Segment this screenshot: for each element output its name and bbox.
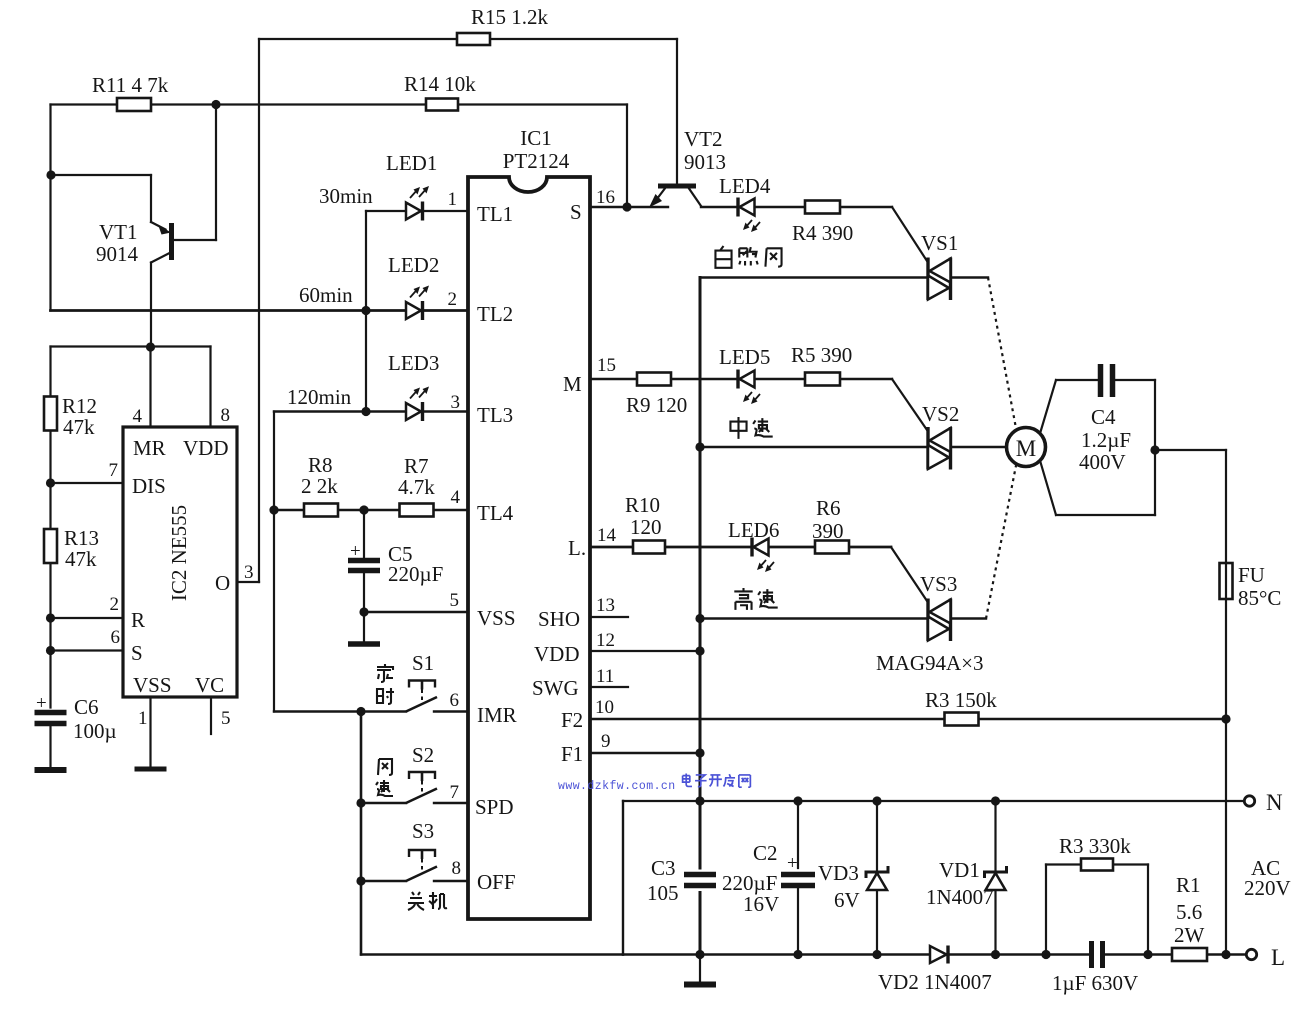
- svg-text:6: 6: [450, 690, 460, 711]
- svg-text:6V: 6V: [834, 888, 860, 912]
- svg-text:MR: MR: [133, 436, 166, 460]
- svg-text:16: 16: [596, 187, 615, 208]
- svg-text:VDD: VDD: [534, 642, 580, 666]
- svg-text:TL2: TL2: [477, 302, 513, 326]
- svg-text:7: 7: [450, 782, 460, 803]
- svg-text:4: 4: [451, 487, 461, 508]
- svg-text:VSS: VSS: [133, 673, 172, 697]
- svg-text:47k: 47k: [63, 415, 95, 439]
- svg-text:VC: VC: [195, 673, 224, 697]
- svg-text:VD1: VD1: [939, 858, 980, 882]
- svg-text:1µF 630V: 1µF 630V: [1052, 971, 1138, 995]
- svg-text:LED6: LED6: [728, 518, 779, 542]
- svg-text:4.7k: 4.7k: [398, 475, 435, 499]
- svg-text:L: L: [1271, 945, 1285, 970]
- svg-text:F1: F1: [561, 742, 583, 766]
- svg-text:5: 5: [221, 708, 231, 729]
- svg-text:R5 390: R5 390: [791, 343, 852, 367]
- svg-text:5: 5: [450, 590, 460, 611]
- svg-text:16V: 16V: [743, 892, 779, 916]
- svg-text:VT1: VT1: [99, 220, 138, 244]
- svg-text:12: 12: [596, 630, 615, 651]
- svg-text:S: S: [570, 200, 582, 224]
- svg-text:2W: 2W: [1174, 923, 1205, 947]
- svg-text:2 2k: 2 2k: [301, 474, 338, 498]
- svg-text:C2: C2: [753, 841, 778, 865]
- svg-text:R9 120: R9 120: [626, 393, 687, 417]
- svg-text:SHO: SHO: [538, 607, 580, 631]
- svg-text:SWG: SWG: [532, 676, 579, 700]
- svg-text:R: R: [131, 608, 145, 632]
- svg-text:PT2124: PT2124: [503, 149, 570, 173]
- svg-text:105: 105: [647, 881, 679, 905]
- svg-text:M: M: [563, 372, 582, 396]
- svg-text:VD3: VD3: [818, 861, 859, 885]
- svg-text:LED2: LED2: [388, 253, 439, 277]
- svg-text:30min: 30min: [319, 184, 373, 208]
- svg-text:TL3: TL3: [477, 403, 513, 427]
- svg-text:VD2 1N4007: VD2 1N4007: [878, 970, 992, 994]
- svg-text:220µF: 220µF: [388, 562, 443, 586]
- svg-text:8: 8: [221, 405, 231, 426]
- svg-text:R10: R10: [625, 493, 660, 517]
- svg-text:C6: C6: [74, 695, 99, 719]
- svg-text:85°C: 85°C: [1238, 586, 1281, 610]
- svg-text:13: 13: [596, 595, 615, 616]
- svg-text:60min: 60min: [299, 283, 353, 307]
- svg-text:2: 2: [448, 289, 458, 310]
- svg-text:R3 330k: R3 330k: [1059, 834, 1131, 858]
- svg-text:OFF: OFF: [477, 870, 516, 894]
- svg-text:FU: FU: [1238, 563, 1265, 587]
- svg-text:+: +: [350, 541, 361, 562]
- svg-text:+: +: [787, 853, 798, 874]
- svg-text:R15 1.2k: R15 1.2k: [471, 5, 549, 29]
- svg-text:SPD: SPD: [475, 795, 514, 819]
- svg-text:R6: R6: [816, 496, 841, 520]
- svg-text:VS3: VS3: [920, 572, 957, 596]
- svg-text:IC2 NE555: IC2 NE555: [167, 505, 191, 601]
- svg-text:120: 120: [630, 515, 662, 539]
- svg-text:5.6: 5.6: [1176, 900, 1202, 924]
- svg-text:M: M: [1016, 436, 1036, 461]
- svg-text:100µ: 100µ: [73, 719, 117, 743]
- svg-text:www.dzkfw.com.cn: www.dzkfw.com.cn: [558, 780, 676, 793]
- svg-text:LED4: LED4: [719, 174, 771, 198]
- svg-text:R11 4 7k: R11 4 7k: [92, 73, 169, 97]
- svg-text:7: 7: [109, 460, 119, 481]
- svg-text:R14 10k: R14 10k: [404, 72, 476, 96]
- svg-text:3: 3: [244, 562, 254, 583]
- svg-text:TL4: TL4: [477, 501, 514, 525]
- svg-text:VS1: VS1: [921, 231, 958, 255]
- svg-text:1: 1: [138, 708, 148, 729]
- svg-text:S2: S2: [412, 743, 434, 767]
- svg-text:LED1: LED1: [386, 151, 437, 175]
- svg-text:L.: L.: [568, 536, 586, 560]
- svg-text:S: S: [131, 641, 143, 665]
- svg-text:15: 15: [597, 355, 616, 376]
- svg-text:4: 4: [133, 406, 143, 427]
- svg-text:3: 3: [451, 392, 461, 413]
- svg-text:1.2µF: 1.2µF: [1081, 428, 1131, 452]
- svg-text:O: O: [215, 571, 230, 595]
- svg-text:VS2: VS2: [922, 402, 959, 426]
- svg-text:9014: 9014: [96, 242, 139, 266]
- svg-text:S3: S3: [412, 819, 434, 843]
- svg-text:VT2: VT2: [684, 127, 723, 151]
- svg-text:10: 10: [595, 697, 614, 718]
- svg-text:C3: C3: [651, 856, 676, 880]
- svg-text:VDD: VDD: [183, 436, 229, 460]
- svg-text:LED5: LED5: [719, 345, 770, 369]
- svg-text:VSS: VSS: [477, 606, 516, 630]
- svg-text:11: 11: [596, 666, 614, 687]
- svg-text:400V: 400V: [1079, 450, 1126, 474]
- svg-text:1: 1: [448, 189, 458, 210]
- svg-text:390: 390: [812, 519, 844, 543]
- svg-text:TL1: TL1: [477, 202, 513, 226]
- svg-text:MAG94A×3: MAG94A×3: [876, 651, 984, 675]
- svg-text:9013: 9013: [684, 150, 726, 174]
- svg-text:47k: 47k: [65, 547, 97, 571]
- svg-text:8: 8: [452, 858, 462, 879]
- svg-text:R3 150k: R3 150k: [925, 688, 997, 712]
- svg-text:F2: F2: [561, 708, 583, 732]
- svg-text:9: 9: [601, 731, 611, 752]
- svg-text:2: 2: [110, 594, 120, 615]
- svg-text:S1: S1: [412, 651, 434, 675]
- svg-text:6: 6: [111, 627, 121, 648]
- svg-text:IMR: IMR: [477, 703, 517, 727]
- svg-text:R4 390: R4 390: [792, 221, 853, 245]
- svg-text:N: N: [1266, 790, 1283, 815]
- svg-text:120min: 120min: [287, 385, 352, 409]
- svg-text:C4: C4: [1091, 405, 1116, 429]
- svg-text:1N4007: 1N4007: [926, 885, 994, 909]
- svg-text:220V: 220V: [1244, 876, 1291, 900]
- svg-text:14: 14: [597, 525, 617, 546]
- svg-text:LED3: LED3: [388, 351, 439, 375]
- svg-text:+: +: [36, 693, 47, 714]
- svg-text:R1: R1: [1176, 873, 1201, 897]
- svg-text:DIS: DIS: [132, 474, 166, 498]
- svg-text:IC1: IC1: [520, 126, 552, 150]
